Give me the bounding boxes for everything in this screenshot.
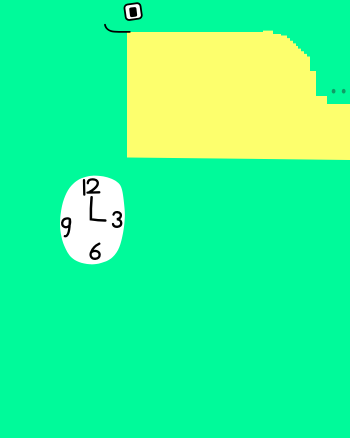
clock hands [91, 197, 105, 220]
numeral 12 digit 2 [88, 179, 100, 192]
numeral 3 [113, 212, 121, 227]
numeral 12 digit 1 [83, 180, 86, 194]
dot 2 [342, 89, 346, 94]
eye icon outer [124, 3, 142, 21]
yellow shape [127, 31, 350, 160]
numeral 9 [62, 218, 70, 236]
smile curve [105, 25, 130, 32]
dot 1 [332, 89, 336, 94]
numeral 6 [91, 244, 100, 259]
clock face [60, 176, 125, 265]
eye icon pupil [129, 7, 137, 17]
